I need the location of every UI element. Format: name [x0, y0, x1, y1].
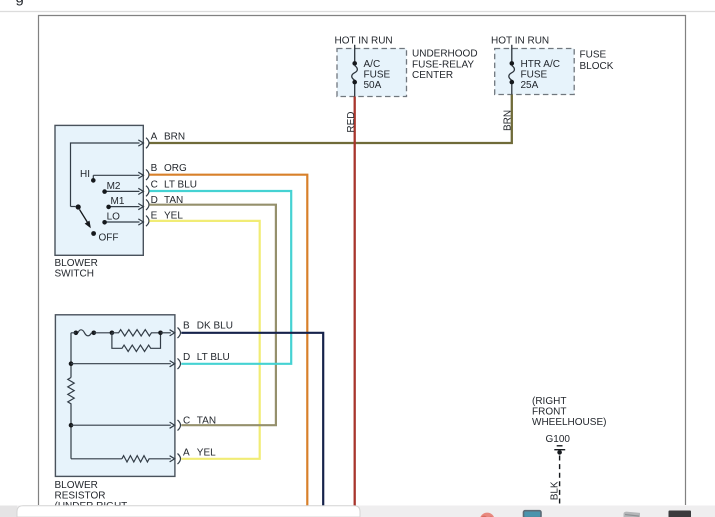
svg-text:LO: LO: [107, 211, 121, 222]
pin E connector: [146, 216, 149, 227]
resistor R2 (bottom of pair): [112, 333, 161, 352]
resistor R1 (top of pair): [112, 330, 161, 336]
switch arm (to OFF): [80, 210, 89, 225]
wire ORG: switch B down page: [149, 175, 307, 506]
svg-text:RESISTOR: RESISTOR: [55, 490, 106, 501]
fuse F1 element: [352, 66, 358, 81]
ground G100 symbol: [557, 445, 563, 447]
svg-text:BRN: BRN: [502, 110, 513, 131]
svg-text:D: D: [183, 352, 190, 363]
node LO contact dot: [102, 220, 107, 225]
fuse F2 element: [509, 66, 515, 81]
svg-text:FUSE: FUSE: [580, 50, 607, 61]
svg-text:FUSE: FUSE: [521, 70, 548, 81]
svg-text:SWITCH: SWITCH: [55, 268, 94, 279]
wire BRN from fuse2 down and left to switch pin A: [149, 95, 511, 143]
node fuse bottom dot: [510, 80, 515, 85]
wire DK BLU: resistor B down page: [181, 333, 323, 506]
pin A connector: [146, 138, 149, 149]
node dot parallel left: [110, 331, 115, 336]
top separator line: [0, 11, 715, 13]
wire common pole to pin A: [71, 143, 140, 207]
node fuse bottom dot: [352, 80, 357, 85]
svg-text:g: g: [16, 0, 24, 7]
svg-text:HOT IN RUN: HOT IN RUN: [491, 36, 549, 47]
thermal limiter element: [71, 330, 92, 336]
node OFF contact dot: [91, 231, 96, 236]
svg-text:FUSE-RELAY: FUSE-RELAY: [412, 59, 474, 70]
wire to pin B with arrow: [161, 332, 171, 334]
svg-text:HOT IN RUN: HOT IN RUN: [335, 36, 393, 47]
svg-text:FRONT: FRONT: [532, 407, 566, 418]
pin D connector: [146, 199, 149, 210]
svg-text:HI: HI: [80, 169, 90, 180]
node dot bus-D junction: [69, 361, 74, 366]
svg-text:M2: M2: [107, 181, 121, 192]
node fuse top dot: [352, 61, 357, 66]
wire to parallel pair: [94, 332, 112, 334]
node fuse top dot: [510, 61, 515, 66]
svg-text:C: C: [183, 415, 190, 426]
svg-text:BLOCK: BLOCK: [580, 61, 614, 72]
svg-text:B: B: [151, 163, 158, 174]
node dot parallel right: [158, 331, 163, 336]
position M2: wire to pin C: [105, 190, 140, 192]
svg-text:DK BLU: DK BLU: [197, 321, 233, 332]
pin A connector: [178, 454, 181, 465]
wire BLK (dashed): [559, 456, 561, 506]
wire (stub into fuse): [354, 45, 356, 62]
pin C connector: [146, 186, 149, 197]
wire jog to pivot: [71, 206, 76, 208]
fuse box U1 dashed enclosure: [337, 49, 407, 97]
svg-text:C: C: [151, 179, 158, 190]
svg-text:HTR A/C: HTR A/C: [521, 59, 560, 70]
svg-text:B: B: [183, 321, 190, 332]
node HI contact dot: [91, 178, 96, 183]
pin B connector: [146, 169, 149, 180]
svg-text:ORG: ORG: [164, 163, 187, 174]
wire left bus: [70, 333, 72, 459]
svg-text:YEL: YEL: [197, 447, 216, 458]
svg-text:A/C: A/C: [364, 59, 381, 70]
node pivot dot: [76, 204, 81, 209]
wire (fuse to box bottom): [511, 84, 513, 95]
svg-text:FUSE: FUSE: [364, 69, 391, 80]
wire TAN: switch D to resistor C: [149, 205, 276, 426]
svg-text:M1: M1: [111, 196, 125, 207]
svg-text:UNDERHOOD: UNDERHOOD: [412, 49, 478, 60]
svg-text:LT BLU: LT BLU: [164, 179, 197, 190]
node M1 contact dot: [106, 205, 111, 210]
pin B connector: [178, 328, 181, 339]
position LO: wire to pin E: [105, 221, 140, 223]
svg-text:A: A: [183, 447, 190, 458]
wire RED from fuse1 down to page bottom: [354, 97, 356, 506]
position HI: wire to pin B: [93, 174, 139, 176]
svg-text:LT BLU: LT BLU: [197, 352, 230, 363]
node dot top-left: [74, 331, 79, 336]
position M1: wire to pin D: [109, 206, 140, 208]
blower switch enclosure: [55, 125, 143, 255]
pin D connector: [178, 358, 181, 369]
node dot bus-C junction: [69, 423, 74, 428]
blower resistor enclosure: [55, 315, 174, 477]
svg-text:CENTER: CENTER: [412, 70, 453, 81]
wire (stub into fuse): [511, 45, 513, 62]
wire LT BLU: switch C to resistor D: [149, 191, 291, 364]
resistor R4 (series to pin A): [122, 456, 171, 462]
svg-text:OFF: OFF: [99, 233, 119, 244]
node M2 contact dot: [102, 189, 107, 194]
svg-text:(RIGHT: (RIGHT: [532, 396, 566, 407]
resistor R3 (vertical): [68, 378, 74, 408]
pin C connector: [178, 420, 181, 431]
node dot after limiter: [92, 331, 97, 336]
svg-text:TAN: TAN: [197, 415, 216, 426]
fuse block dashed enclosure: [495, 49, 575, 95]
svg-text:BLK: BLK: [549, 481, 560, 500]
wire YEL: switch E to resistor A: [149, 221, 259, 459]
svg-text:BLOWER: BLOWER: [55, 480, 98, 491]
svg-text:WHEELHOUSE): WHEELHOUSE): [532, 417, 606, 428]
svg-text:50A: 50A: [364, 80, 382, 91]
svg-text:BRN: BRN: [164, 132, 185, 143]
svg-text:25A: 25A: [521, 80, 539, 91]
svg-text:G100: G100: [546, 434, 571, 445]
svg-text:BLOWER: BLOWER: [55, 258, 98, 269]
wire to pin D with arrow: [71, 363, 171, 365]
svg-text:RED: RED: [346, 111, 357, 132]
svg-text:A: A: [151, 132, 158, 143]
wire to pin C with arrow: [71, 424, 171, 426]
wire (fuse to box bottom): [354, 84, 356, 97]
wire bottom to pin A: [71, 458, 122, 460]
